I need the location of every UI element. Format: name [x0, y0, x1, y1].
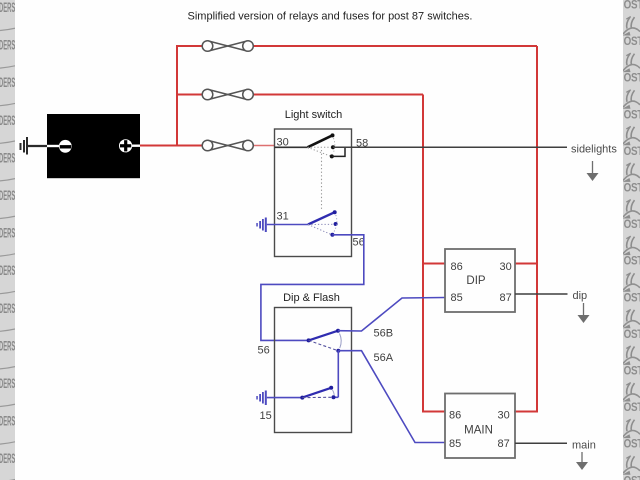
wire tee to DIP 30	[515, 263, 538, 265]
svg-text:DERS: DERS	[0, 151, 15, 167]
pin 56 label (light switch)	[353, 237, 365, 249]
contact dots SW2a	[307, 329, 341, 353]
wire 58 sidelights	[333, 146, 567, 148]
svg-text:OST: OST	[624, 182, 640, 195]
wire tee to DIP 86	[422, 263, 445, 265]
label Dip & Flash	[283, 292, 340, 304]
svg-text:31: 31	[277, 211, 289, 223]
arrow dip	[578, 303, 590, 323]
svg-text:15: 15	[260, 410, 272, 422]
label main	[572, 440, 596, 452]
wire link to flash contact	[334, 351, 339, 398]
wire red riser from battery	[176, 45, 178, 146]
contact dots SW1a	[330, 133, 335, 158]
DIP pin 87 label	[500, 292, 512, 304]
svg-text:56B: 56B	[374, 328, 394, 340]
svg-text:56A: 56A	[374, 352, 394, 364]
label dip	[573, 290, 588, 302]
svg-text:DERS: DERS	[0, 0, 15, 16]
MAIN label	[464, 425, 493, 437]
svg-text:56: 56	[258, 345, 270, 357]
Dip & Flash box	[275, 308, 352, 433]
switch lever SW1a	[308, 135, 333, 147]
DIP pin 86 label	[451, 261, 463, 273]
MAIN pin 85 label	[449, 438, 461, 450]
fuse F1	[202, 40, 253, 51]
svg-text:dip: dip	[573, 290, 588, 302]
mechanical link dotted	[321, 150, 323, 210]
svg-text:OST: OST	[624, 365, 640, 378]
wire MAIN 87 to main output	[515, 442, 567, 444]
wire 15 feed	[267, 397, 303, 399]
bracket joining 58 contacts	[332, 147, 345, 156]
MAIN pin 86 label	[449, 410, 461, 422]
contact dots SW1b	[330, 210, 337, 237]
svg-text:87: 87	[500, 292, 512, 304]
wire 30 feed inside box	[275, 146, 308, 148]
svg-text:main: main	[572, 440, 596, 452]
svg-text:sidelights: sidelights	[571, 144, 617, 156]
dashed throw line SW2b	[302, 390, 334, 398]
label 56B	[374, 328, 394, 340]
relay DIP	[445, 249, 515, 312]
svg-text:86: 86	[451, 261, 463, 273]
switch lever SW2b	[302, 388, 331, 398]
svg-text:OST: OST	[624, 328, 640, 341]
svg-text:OST: OST	[624, 438, 640, 451]
svg-text:85: 85	[451, 292, 463, 304]
wire red vertical to MAIN 86	[423, 95, 445, 412]
svg-text:Dip & Flash: Dip & Flash	[283, 292, 340, 304]
ground	[20, 137, 29, 155]
dotted throw lines SW1a	[308, 138, 335, 156]
wire DIP 87 to dip output	[515, 293, 568, 295]
svg-text:OST: OST	[624, 291, 640, 304]
arrow sidelights	[587, 161, 599, 181]
pin 15 label	[260, 410, 272, 422]
svg-text:DERS: DERS	[0, 301, 15, 317]
wire fuse row 1	[176, 45, 537, 47]
svg-text:OST: OST	[624, 72, 640, 85]
svg-text:DERS: DERS	[0, 414, 15, 430]
ground at pin 15	[256, 391, 267, 406]
svg-text:DERS: DERS	[0, 226, 15, 242]
svg-text:MAIN: MAIN	[464, 425, 493, 437]
svg-text:OST: OST	[624, 401, 640, 414]
svg-text:86: 86	[449, 410, 461, 422]
DIP pin 85 label	[451, 292, 463, 304]
wire red right vertical to MAIN 30	[514, 46, 537, 412]
svg-text:87: 87	[498, 438, 510, 450]
switch lever SW2a	[309, 331, 338, 341]
svg-text:Simplified version of relays a: Simplified version of relays and fuses f…	[188, 11, 473, 23]
switch lever SW1b	[308, 212, 335, 224]
svg-text:30: 30	[500, 261, 512, 273]
wire 56B to DIP 85	[338, 298, 445, 332]
svg-text:OST: OST	[624, 255, 640, 268]
svg-text:OST: OST	[624, 35, 640, 48]
wire 56 from light switch to Dip&Flash	[261, 235, 364, 341]
pin 58 label	[356, 138, 368, 150]
svg-text:OST: OST	[624, 474, 640, 480]
wire ground to battery	[28, 145, 47, 147]
svg-text:OST: OST	[624, 218, 640, 231]
battery B1	[47, 114, 140, 178]
DIP label	[466, 275, 486, 287]
svg-text:OST: OST	[624, 145, 640, 158]
svg-text:DIP: DIP	[466, 275, 486, 287]
label sidelights	[571, 144, 617, 156]
svg-text:85: 85	[449, 438, 461, 450]
svg-text:DERS: DERS	[0, 188, 15, 204]
svg-text:DERS: DERS	[0, 263, 15, 279]
DIP pin 30 label	[500, 261, 512, 273]
pin 30 label	[277, 137, 289, 149]
wire fuse row 2	[177, 94, 423, 96]
dotted throw lines SW1b	[308, 215, 337, 234]
svg-text:DERS: DERS	[0, 451, 15, 467]
light switch box	[275, 129, 352, 257]
svg-text:Light switch: Light switch	[285, 109, 342, 121]
wire battery positive feed	[140, 145, 275, 147]
svg-text:30: 30	[498, 410, 510, 422]
MAIN pin 87 label	[498, 438, 510, 450]
pin 31 label	[277, 211, 289, 223]
ground at pin 31	[256, 218, 267, 233]
arrow main	[576, 452, 588, 470]
title	[188, 11, 473, 23]
fuse F2	[202, 89, 253, 100]
svg-text:OST: OST	[624, 0, 640, 12]
contact dots SW2b	[300, 386, 335, 400]
svg-text:DERS: DERS	[0, 38, 15, 54]
MAIN pin 30 label	[498, 410, 510, 422]
relay MAIN	[445, 394, 515, 459]
label 56A	[374, 352, 394, 364]
wire 31 feed	[267, 224, 308, 226]
svg-text:56: 56	[353, 237, 365, 249]
pin 56 label (dip&flash)	[258, 345, 270, 357]
label Light switch	[285, 109, 342, 121]
svg-text:DERS: DERS	[0, 113, 15, 129]
svg-text:OST: OST	[624, 108, 640, 121]
wire 56A to MAIN 85	[338, 351, 445, 443]
fuse F3	[202, 140, 253, 151]
svg-text:DERS: DERS	[0, 376, 15, 392]
svg-text:DERS: DERS	[0, 339, 15, 355]
dashed throw line SW2a	[309, 334, 342, 351]
svg-text:DERS: DERS	[0, 75, 15, 91]
